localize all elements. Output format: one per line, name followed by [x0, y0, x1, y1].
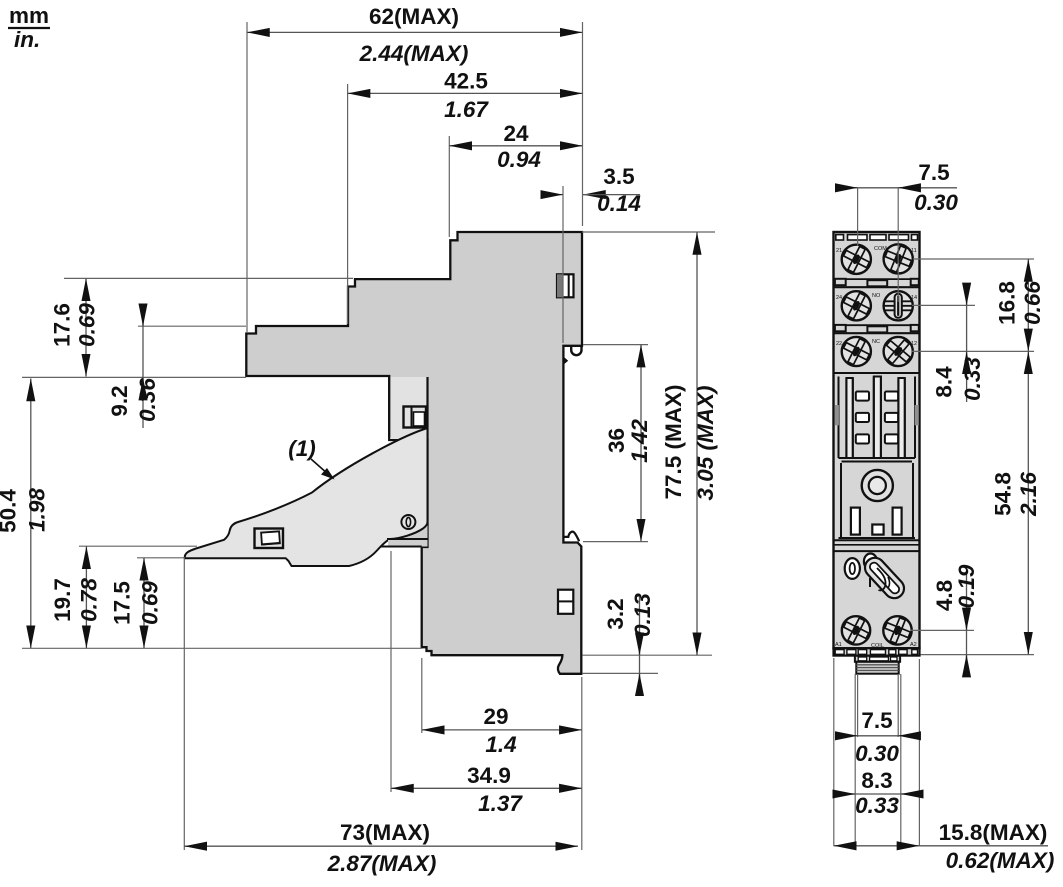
terminal row divider 1 — [834, 279, 920, 287]
svg-text:73(MAX): 73(MAX) — [340, 820, 430, 845]
svg-text:0.14: 0.14 — [597, 191, 641, 216]
release lever (1) — [185, 428, 428, 566]
latch spring clip in pocket — [404, 407, 427, 428]
svg-text:mm: mm — [9, 3, 49, 28]
clip detail bottom right edge — [558, 590, 573, 614]
extension lines side view — [22, 22, 715, 850]
svg-text:0.69: 0.69 — [138, 581, 163, 625]
svg-text:COM: COM — [874, 246, 887, 252]
svg-text:(1): (1) — [288, 436, 316, 461]
clip detail top right edge — [557, 274, 574, 297]
serrated bottom band — [834, 648, 920, 655]
top vent slots — [836, 235, 918, 240]
side view relay socket body outline — [246, 232, 582, 674]
latch pocket — [389, 377, 427, 440]
svg-text:17.6: 17.6 — [50, 303, 75, 347]
svg-text:7.5: 7.5 — [918, 160, 949, 185]
dimension 19.7 vertical — [50, 546, 102, 648]
svg-text:22: 22 — [836, 341, 842, 347]
socket contact windows — [856, 392, 898, 444]
center hole section — [834, 463, 920, 551]
svg-text:NO: NO — [872, 293, 881, 299]
dimension 54.8 vertical front — [991, 351, 1042, 654]
svg-text:0.62(MAX): 0.62(MAX) — [946, 848, 1055, 873]
bottom screw left — [842, 616, 870, 644]
DIN rail recess tooth — [563, 357, 568, 365]
svg-text:2.44(MAX): 2.44(MAX) — [359, 41, 469, 66]
dimension 36 vertical — [604, 345, 652, 542]
dimension 77.5(MAX) vertical — [661, 232, 718, 655]
dimension 17.5 vertical — [110, 558, 163, 649]
svg-text:21: 21 — [836, 248, 842, 254]
svg-text:3.05 (MAX): 3.05 (MAX) — [693, 385, 718, 500]
dimension 34.9 — [391, 763, 582, 816]
svg-text:17.5: 17.5 — [110, 581, 135, 625]
lever hook detail — [255, 529, 284, 549]
dimension 8.4 vertical front outside arrows — [932, 289, 986, 402]
svg-text:A1: A1 — [835, 642, 842, 648]
lever pivot screw — [401, 515, 415, 529]
svg-text:1.42: 1.42 — [627, 419, 652, 463]
dimension 15.8(MAX) — [834, 820, 1055, 873]
svg-text:0.30: 0.30 — [855, 741, 899, 766]
svg-text:54.8: 54.8 — [991, 472, 1016, 516]
dimension 9.2 vertical outside arrows — [107, 309, 160, 428]
svg-text:42.5: 42.5 — [444, 69, 488, 94]
svg-text:12: 12 — [911, 341, 917, 347]
dimension 17.6 vertical — [50, 278, 100, 376]
dimension 3.5 — [545, 164, 641, 216]
dimension 62(MAX) — [247, 4, 583, 66]
svg-text:2.16: 2.16 — [1016, 472, 1041, 517]
svg-text:29: 29 — [483, 704, 508, 729]
screw terminal row2 right slotted — [884, 291, 913, 320]
svg-text:3.5: 3.5 — [603, 164, 634, 189]
dimension 29 — [422, 704, 582, 757]
dimension 7.5 top front — [838, 160, 958, 215]
leader (1) — [288, 436, 334, 480]
svg-text:19.7: 19.7 — [50, 578, 75, 622]
bottom screw right — [883, 616, 911, 644]
svg-text:0.33: 0.33 — [855, 793, 899, 818]
screw terminal row3 right — [884, 337, 913, 366]
dimension 50.4 vertical — [0, 379, 50, 649]
svg-text:24: 24 — [503, 121, 529, 146]
dimension 42.5 — [348, 69, 583, 123]
DIN rail bottom clamp claw — [563, 532, 579, 542]
svg-text:14: 14 — [911, 295, 917, 301]
tiny terminal labels front view — [835, 246, 917, 649]
dimension 7.5 bottom front — [841, 708, 915, 766]
svg-text:62(MAX): 62(MAX) — [369, 4, 459, 29]
svg-text:0.33: 0.33 — [960, 357, 985, 401]
dimension 4.8 vertical front outside arrows — [932, 564, 979, 671]
svg-text:0.30: 0.30 — [914, 190, 958, 215]
units label mm over in — [8, 3, 50, 52]
dimension 3.2 vertical outside arrows — [603, 593, 655, 695]
svg-text:0.78: 0.78 — [77, 578, 102, 622]
body wedge behind lever corner — [388, 510, 428, 547]
dimension 24 — [449, 121, 582, 172]
svg-text:1.98: 1.98 — [25, 488, 50, 532]
svg-text:15.8(MAX): 15.8(MAX) — [939, 820, 1048, 845]
svg-text:1.37: 1.37 — [478, 791, 523, 816]
socket side notches — [835, 405, 839, 425]
svg-text:7.5: 7.5 — [861, 708, 892, 733]
svg-text:2.87(MAX): 2.87(MAX) — [327, 851, 437, 876]
svg-text:0.94: 0.94 — [497, 147, 541, 172]
svg-text:0.19: 0.19 — [954, 564, 979, 608]
retaining clip keyhole — [861, 554, 908, 602]
lower section oval holes — [845, 554, 877, 579]
screw terminal row1 left — [842, 245, 871, 274]
svg-text:16.8: 16.8 — [995, 281, 1020, 325]
svg-text:77.5 (MAX): 77.5 (MAX) — [661, 384, 686, 499]
svg-text:NC: NC — [872, 339, 880, 345]
svg-text:COIL: COIL — [871, 643, 884, 649]
svg-text:24: 24 — [836, 295, 842, 301]
svg-text:3.2: 3.2 — [603, 598, 628, 629]
svg-text:0.13: 0.13 — [630, 593, 655, 637]
body ledge under lever — [380, 539, 428, 547]
screw terminal row1 right — [884, 244, 913, 273]
svg-text:34.9: 34.9 — [467, 763, 511, 788]
svg-text:0.36: 0.36 — [135, 378, 160, 422]
svg-text:36: 36 — [604, 428, 629, 453]
extension lines front view — [834, 188, 1034, 846]
svg-text:9.2: 9.2 — [107, 385, 132, 416]
screw terminal row3 left — [842, 337, 871, 366]
svg-text:0.66: 0.66 — [1020, 281, 1045, 325]
svg-text:8.3: 8.3 — [861, 768, 892, 793]
svg-text:50.4: 50.4 — [0, 489, 21, 533]
DIN mount tab — [855, 656, 900, 674]
dimension 16.8 vertical front — [995, 259, 1046, 351]
dimension 8.3 bottom front — [839, 768, 917, 818]
screw terminal row2 left — [842, 291, 871, 320]
svg-text:0.69: 0.69 — [75, 303, 100, 347]
svg-text:A2: A2 — [910, 642, 917, 648]
svg-text:1.67: 1.67 — [444, 97, 489, 122]
socket section frame — [834, 373, 920, 462]
DIN rail top clamp hook — [571, 346, 581, 355]
svg-text:in.: in. — [14, 27, 40, 52]
svg-text:1.4: 1.4 — [485, 732, 517, 757]
svg-text:8.4: 8.4 — [932, 366, 957, 398]
svg-text:11: 11 — [911, 248, 917, 254]
terminal row divider 2 — [834, 325, 920, 333]
dimension 73(MAX) — [184, 820, 578, 876]
front view body — [834, 232, 920, 648]
